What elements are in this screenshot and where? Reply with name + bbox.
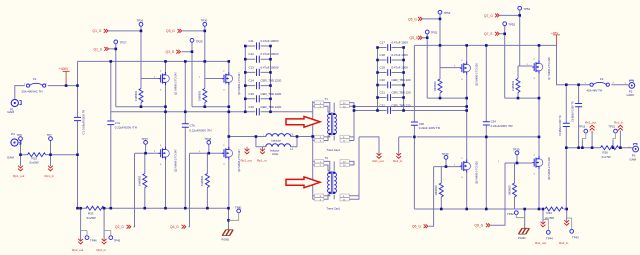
inductor coil xyxy=(266,134,291,137)
svg-text:Rs2_out: Rs2_out xyxy=(535,241,546,245)
junction xyxy=(376,59,379,62)
pin box xyxy=(315,135,324,138)
svg-text:TP15: TP15 xyxy=(608,124,615,128)
junction xyxy=(538,136,541,139)
svg-text:1M/0603: 1M/0603 xyxy=(511,80,515,91)
output bottom rail xyxy=(566,147,633,149)
chevrons xyxy=(418,36,422,40)
svg-text:R26: R26 xyxy=(603,150,609,154)
junction xyxy=(244,71,247,74)
pin box xyxy=(315,198,324,201)
Q3 resistor leads xyxy=(204,79,206,107)
wire xyxy=(74,117,81,120)
TP51 col / Q5_S xyxy=(423,34,428,98)
wire xyxy=(245,71,270,73)
TP7 xyxy=(49,137,53,141)
svg-text:Rp1_out: Rp1_out xyxy=(241,159,253,163)
junction xyxy=(184,207,187,210)
chevrons xyxy=(127,225,131,229)
C1 capacitor xyxy=(74,117,81,120)
TP54 xyxy=(518,6,522,10)
wire xyxy=(582,133,585,141)
junction xyxy=(565,83,568,86)
svg-text:TP51: TP51 xyxy=(431,31,438,35)
wire xyxy=(505,155,532,164)
bottom bus right xyxy=(414,208,541,210)
Q4_G riser xyxy=(189,153,190,227)
junction xyxy=(227,219,230,222)
lower gate wires xyxy=(135,152,224,154)
mid rail y111.8 xyxy=(111,111,313,113)
lower FET groups xyxy=(144,141,148,145)
pin box xyxy=(315,101,324,104)
P3 xyxy=(633,144,639,152)
svg-text:TP41: TP41 xyxy=(235,205,242,209)
junction xyxy=(244,98,247,101)
TP38 stub xyxy=(208,144,210,153)
PGND column xyxy=(228,208,230,230)
MOSFET xyxy=(460,160,471,173)
svg-text:1M/0603: 1M/0603 xyxy=(433,81,437,92)
ground PGND xyxy=(519,228,530,234)
net flag xyxy=(564,220,569,225)
wire xyxy=(257,42,260,49)
mid sense flags Rp1 xyxy=(247,147,263,152)
R34 kelvin flags xyxy=(541,222,546,227)
junction xyxy=(103,207,106,210)
MOSFET xyxy=(159,147,170,160)
wire xyxy=(324,161,330,170)
svg-text:C16: C16 xyxy=(249,105,255,109)
junction xyxy=(353,109,356,112)
svg-text:TP29: TP29 xyxy=(196,40,203,44)
wire xyxy=(378,47,404,49)
PGND right column + TP42 xyxy=(524,209,526,229)
wire xyxy=(324,103,330,112)
svg-text:C1 0.68uF/630V TR: C1 0.68uF/630V TR xyxy=(82,110,86,135)
TP27 col / Q1_S xyxy=(109,44,116,107)
pin box xyxy=(315,105,324,108)
junction xyxy=(413,136,416,139)
wire xyxy=(491,163,505,225)
R33 shunt xyxy=(86,206,104,210)
wire xyxy=(229,137,256,147)
svg-text:5m/5W: 5m/5W xyxy=(30,161,39,165)
output top rail to fuse/P2 xyxy=(611,84,628,86)
Q3_G wire xyxy=(183,30,205,32)
pin box xyxy=(340,160,349,163)
wire xyxy=(349,103,354,141)
test point xyxy=(515,151,519,155)
wire xyxy=(378,59,404,61)
transformer winding xyxy=(334,114,336,134)
svg-text:C3 680uF/100V TR: C3 680uF/100V TR xyxy=(572,101,575,122)
svg-text:Q2 NM06-2 TO-247: Q2 NM06-2 TO-247 xyxy=(174,149,178,172)
svg-text:+400V: +400V xyxy=(59,67,69,71)
fuse F1 xyxy=(26,83,45,87)
junction xyxy=(565,208,568,211)
svg-text:2m/7W: 2m/7W xyxy=(602,155,611,159)
chevrons xyxy=(104,29,108,33)
wire xyxy=(613,133,616,141)
winding post xyxy=(333,192,335,194)
junction xyxy=(228,105,231,108)
TP52 xyxy=(438,10,442,14)
junction xyxy=(426,36,429,39)
wire xyxy=(103,208,105,241)
Q1/Q2 column xyxy=(165,61,167,208)
svg-text:Q3_S: Q3_S xyxy=(166,50,175,54)
svg-text:1M/0603: 1M/0603 xyxy=(434,185,438,196)
junction xyxy=(191,50,194,53)
svg-text:T3: T3 xyxy=(325,156,329,160)
junction xyxy=(206,207,209,210)
junction xyxy=(65,84,68,87)
svg-text:Rs2_in: Rs2_in xyxy=(559,241,569,245)
svg-text:CER_TBD 2220: CER_TBD 2220 xyxy=(261,105,282,109)
wire xyxy=(378,48,404,111)
TP7 stub xyxy=(50,140,52,155)
svg-text:40A 48V TH: 40A 48V TH xyxy=(587,88,603,92)
junction xyxy=(577,83,580,86)
wire xyxy=(245,98,270,100)
resistor 1M 0603 xyxy=(439,183,443,197)
svg-text:Q7_G: Q7_G xyxy=(484,14,493,18)
Rs1 mid sense flags xyxy=(377,153,382,158)
svg-text:Inductor: Inductor xyxy=(270,149,280,153)
test point xyxy=(570,229,574,233)
junction xyxy=(465,208,468,211)
svg-text:GA06: GA06 xyxy=(627,93,635,97)
wire xyxy=(312,137,314,200)
bus dots upper xyxy=(110,60,113,63)
C7b column xyxy=(184,61,186,208)
wire xyxy=(388,82,391,89)
svg-text:0.22uF/630V /TH: 0.22uF/630V /TH xyxy=(190,128,212,132)
PGND left xyxy=(222,230,233,236)
TP51 xyxy=(425,30,429,34)
svg-text:Q5_S: Q5_S xyxy=(410,36,419,40)
test point xyxy=(546,230,550,234)
TP52 col / Q5 gate xyxy=(423,14,440,68)
junction xyxy=(244,111,247,114)
svg-text:T1: T1 xyxy=(325,97,329,101)
junction xyxy=(465,105,468,108)
svg-text:1M/0603: 1M/0603 xyxy=(200,175,204,186)
net flag xyxy=(78,239,83,244)
svg-text:Rp2_out: Rp2_out xyxy=(72,248,84,252)
C7a xyxy=(107,121,114,125)
wire xyxy=(388,57,391,64)
svg-text:0.22uF/630V /TH: 0.22uF/630V /TH xyxy=(115,126,137,130)
1M resistors right upper xyxy=(438,79,442,93)
svg-text:C21: C21 xyxy=(380,91,386,95)
svg-text:Q7_S: Q7_S xyxy=(484,32,493,36)
svg-text:1M/0603: 1M/0603 xyxy=(138,175,142,186)
Q5 group rail xyxy=(427,97,467,99)
svg-text:Q4_G: Q4_G xyxy=(170,225,179,229)
junction xyxy=(227,207,230,210)
junction xyxy=(619,146,622,149)
svg-text:C22: C22 xyxy=(380,104,386,108)
svg-text:C20: C20 xyxy=(380,78,386,82)
wire xyxy=(359,137,379,155)
junction xyxy=(115,48,118,51)
pin box xyxy=(340,194,349,197)
wire P1 up to fuse line xyxy=(15,86,25,99)
bottom bus dots xyxy=(110,207,113,210)
svg-text:Q5 NM06-2 TO-220: Q5 NM06-2 TO-220 xyxy=(475,63,479,86)
red arrow 1 xyxy=(286,116,320,127)
wire xyxy=(388,107,391,114)
svg-text:Q6 NM06-2 TO-220: Q6 NM06-2 TO-220 xyxy=(475,161,479,184)
gray TP hooks and pin marks xyxy=(81,133,616,236)
svg-text:GAM: GAM xyxy=(630,158,637,162)
wire xyxy=(256,136,297,138)
junction xyxy=(542,208,545,211)
junction xyxy=(612,146,615,149)
junction xyxy=(184,111,187,114)
C30 xyxy=(411,122,418,125)
Rs1 out sense taps xyxy=(582,131,592,148)
transformer winding xyxy=(328,114,330,134)
bottom bus dots xyxy=(440,208,443,211)
junction xyxy=(76,84,79,87)
wire xyxy=(543,220,548,231)
svg-text:C14: C14 xyxy=(249,79,255,83)
svg-text:CER_TBD 2220: CER_TBD 2220 xyxy=(261,92,282,96)
MOSFET xyxy=(222,147,233,160)
resistor 1M 0603 xyxy=(203,89,207,103)
TP29 xyxy=(190,38,194,42)
svg-text:0.47uF 1000V: 0.47uF 1000V xyxy=(261,39,279,43)
winding post xyxy=(329,172,331,174)
junction xyxy=(79,207,82,210)
net flag xyxy=(618,125,623,130)
svg-text:R33: R33 xyxy=(88,211,94,215)
pin box xyxy=(315,194,324,197)
wire xyxy=(354,106,467,108)
+48V corner to output rail xyxy=(557,45,590,84)
junction xyxy=(76,153,79,156)
TP6 xyxy=(19,137,23,141)
test point xyxy=(614,129,618,133)
chevrons xyxy=(182,225,186,229)
svg-text:0.22uF/100V /TR: 0.22uF/100V /TR xyxy=(491,124,513,128)
junction xyxy=(538,97,541,100)
sense taps R34 xyxy=(542,209,544,225)
svg-text:1M/0603: 1M/0603 xyxy=(134,90,138,101)
svg-text:Rs1_out: Rs1_out xyxy=(373,159,384,163)
junction xyxy=(439,97,442,100)
junction xyxy=(591,146,594,149)
svg-text:Trans Cap1: Trans Cap1 xyxy=(327,207,341,211)
svg-text:Q8_G: Q8_G xyxy=(475,224,484,228)
junction xyxy=(538,208,541,211)
junction xyxy=(208,152,211,155)
junction xyxy=(516,162,519,165)
svg-text:Q6_G: Q6_G xyxy=(412,225,421,229)
C7b xyxy=(182,124,189,128)
wire xyxy=(245,46,270,112)
svg-text:C17: C17 xyxy=(380,41,386,45)
transformer T1 xyxy=(313,101,354,141)
inductor coil xyxy=(266,144,291,147)
junction xyxy=(376,46,379,49)
svg-text:0.47uF 100V: 0.47uF 100V xyxy=(392,66,409,70)
secondary rails xyxy=(354,107,539,156)
svg-text:TP38: TP38 xyxy=(205,137,212,141)
Q1 resistor leads xyxy=(140,79,142,107)
svg-text:C34: C34 xyxy=(491,120,497,124)
net flag xyxy=(245,149,250,154)
Q5 gate wire + resistor leads xyxy=(440,68,461,99)
wire xyxy=(378,72,404,74)
Q7 group rail xyxy=(505,97,539,99)
TP41 xyxy=(237,209,241,213)
junction xyxy=(485,136,488,139)
TP30 xyxy=(203,22,207,26)
C34 column xyxy=(485,45,487,209)
net flag xyxy=(102,239,107,244)
junction xyxy=(244,84,247,87)
wire xyxy=(257,56,260,63)
resistor 1M 0603 xyxy=(205,174,209,188)
wire xyxy=(229,213,239,221)
R34 and out node xyxy=(564,208,567,210)
wire xyxy=(245,85,270,87)
wire xyxy=(378,84,404,86)
wire xyxy=(313,161,315,199)
lower resistor leads xyxy=(440,167,442,209)
wire xyxy=(104,231,111,236)
wire xyxy=(324,195,330,200)
output sense flags xyxy=(590,125,595,130)
svg-text:TP44: TP44 xyxy=(546,237,553,241)
junction xyxy=(204,105,207,108)
wire xyxy=(81,231,87,236)
C3 column xyxy=(578,85,580,148)
+400V power symbol xyxy=(63,71,70,85)
wire xyxy=(333,161,335,199)
svg-text:Q1_G: Q1_G xyxy=(93,29,102,33)
Rp1_in flag xyxy=(48,166,53,171)
red arrow 2 xyxy=(286,177,320,188)
wire xyxy=(333,103,335,141)
chevrons xyxy=(495,32,499,36)
wire xyxy=(256,146,297,148)
wire xyxy=(378,97,404,99)
pin box xyxy=(340,163,349,166)
right cap bank C17-C22 xyxy=(378,48,404,111)
pin box xyxy=(340,135,349,138)
svg-text:20A 400VAC TH: 20A 400VAC TH xyxy=(22,90,43,94)
junction xyxy=(164,207,167,210)
svg-text:TP30: TP30 xyxy=(201,19,208,23)
svg-text:Inductor: Inductor xyxy=(272,138,282,142)
C2 xyxy=(563,123,570,126)
C7a column plates gap xyxy=(110,61,112,208)
TP26 col / Q1 gate feed xyxy=(140,26,142,79)
svg-text:GAM: GAM xyxy=(7,156,14,160)
svg-text:Rp2_in: Rp2_in xyxy=(97,248,107,252)
test point xyxy=(207,141,211,145)
TP42 / PGND right xyxy=(514,211,518,215)
MOSFET xyxy=(532,156,543,169)
wire xyxy=(354,110,467,112)
svg-text:GAM: GAM xyxy=(7,110,14,114)
winding post xyxy=(329,192,331,194)
wire xyxy=(353,103,355,141)
svg-text:TP16: TP16 xyxy=(579,124,586,128)
junction xyxy=(465,44,468,47)
P2 xyxy=(629,80,635,88)
chevrons xyxy=(418,17,422,21)
svg-text:C18: C18 xyxy=(380,53,386,57)
svg-text:0.47uF 100V: 0.47uF 100V xyxy=(392,41,409,45)
winding post xyxy=(333,113,335,115)
winding post xyxy=(329,113,331,115)
svg-text:TP53: TP53 xyxy=(508,22,515,26)
lower FET groups right xyxy=(444,155,448,159)
svg-text:TP42: TP42 xyxy=(507,212,514,216)
pin box xyxy=(315,160,324,163)
1M gate resistors upper xyxy=(139,89,143,103)
winding post xyxy=(333,172,335,174)
chevrons xyxy=(178,29,182,33)
wire xyxy=(245,58,270,60)
junction xyxy=(144,207,147,210)
junction xyxy=(296,135,299,138)
wire xyxy=(388,94,391,101)
wire xyxy=(566,209,568,223)
Q1_G wire xyxy=(109,30,142,32)
svg-text:5m/5W: 5m/5W xyxy=(87,216,96,220)
wire xyxy=(245,45,270,47)
Q1 MOSFET xyxy=(159,72,170,85)
junction xyxy=(184,60,187,63)
Q5 Q7 MOSFETs xyxy=(460,62,471,75)
wire xyxy=(388,44,391,51)
svg-text:TP27: TP27 xyxy=(120,41,127,45)
svg-text:TP43: TP43 xyxy=(572,236,579,240)
wire xyxy=(206,153,208,208)
C34 xyxy=(483,122,490,125)
svg-text:CER_TBD 220: CER_TBD 220 xyxy=(392,78,412,82)
F2 xyxy=(590,82,609,86)
svg-text:Q3 NM06-2 TO-247: Q3 NM06-2 TO-247 xyxy=(237,72,241,95)
junction xyxy=(465,109,468,112)
svg-text:Q8 NM06-2 TO-220: Q8 NM06-2 TO-220 xyxy=(547,157,551,180)
pin box xyxy=(340,139,349,142)
Q6_G / Q8_G risers xyxy=(429,167,434,227)
svg-text:C19: C19 xyxy=(380,66,386,70)
svg-text:TP40: TP40 xyxy=(442,152,449,156)
resistor 1M 0603 xyxy=(513,183,517,197)
junction xyxy=(140,105,143,108)
junction xyxy=(565,146,568,149)
resistor 1M 0603 xyxy=(143,174,147,188)
TP53 col / Q7_S xyxy=(500,25,505,98)
pin box xyxy=(315,139,324,142)
wire fuse to +400V node to C1 column corner xyxy=(48,85,78,87)
svg-text:TP26: TP26 xyxy=(137,19,144,23)
svg-text:Rp1_in: Rp1_in xyxy=(45,174,55,178)
svg-text:+48V: +48V xyxy=(551,31,559,35)
winding post xyxy=(333,133,335,135)
Q3 MOSFET xyxy=(222,72,233,85)
top bus corner column x77.5 down through C1 to bottom xyxy=(77,61,79,208)
